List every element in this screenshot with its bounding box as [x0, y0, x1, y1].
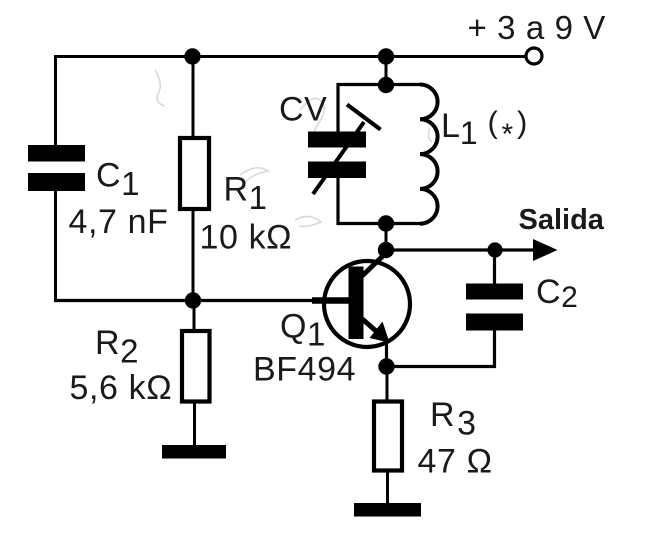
node dot base junction [185, 292, 201, 308]
CV trimmer diagonal [313, 122, 364, 194]
svg-text:CV: CV [279, 91, 327, 129]
svg-text:5,6 kΩ: 5,6 kΩ [70, 369, 173, 407]
Q1 base lead (thick) [312, 297, 350, 304]
wire: left vertical below C1 [54, 191, 57, 302]
svg-text:47 Ω: 47 Ω [418, 443, 493, 481]
wire: output line [386, 248, 536, 251]
svg-text:Salida: Salida [519, 204, 605, 236]
wire: R3 bottom lead [386, 472, 389, 504]
wire: emitter node to R3 [386, 366, 389, 400]
capacitor C2 [466, 284, 523, 331]
wire: R1 top lead [192, 56, 195, 137]
wire: tank left vertical upper (to CV top plate) [336, 83, 339, 133]
Q1 collector lead [360, 252, 387, 278]
svg-text:4,7 nF: 4,7 nF [69, 203, 169, 241]
Q1 base bar [349, 267, 364, 340]
ground (R3) [354, 503, 421, 517]
node dot tank bottom [378, 215, 394, 231]
node dot emitter [378, 358, 394, 374]
output arrowhead [533, 239, 558, 261]
ground (R2) [162, 445, 226, 459]
node dot on rail above R1 [184, 48, 200, 64]
node dot tank top [378, 77, 394, 93]
variable capacitor CV plates [308, 132, 366, 179]
battery terminal (open circle) [526, 48, 542, 64]
wire: rail to tank top [385, 56, 388, 85]
wire: emitter down to node [385, 344, 388, 367]
wire: tank left vertical lower (from CV bottom plate) [336, 177, 339, 225]
resistor R2 [182, 331, 210, 402]
Q1 emitter arrowhead [370, 322, 390, 343]
transistor Q1 body circle [324, 261, 410, 347]
CV trimmer tee bar [347, 105, 381, 130]
wire: C2 bottom lead [493, 330, 496, 368]
wire: R1 bottom lead [192, 211, 195, 301]
resistor R3 [374, 402, 402, 471]
wire: C2 to emitter horizontal [386, 365, 496, 368]
wire: bottom horizontal to base [54, 299, 350, 302]
wire: tank bottom to collector node [385, 223, 388, 251]
wire: tank bottom horizontal [337, 222, 421, 225]
wire: tank top horizontal [337, 83, 421, 86]
svg-text:+ 3 a 9 V: + 3 a 9 V [468, 9, 606, 46]
wire: R2 bottom lead [193, 403, 196, 446]
node dot collector/output [378, 242, 394, 258]
inductor L1 coil [420, 85, 438, 224]
node dot output/C2 [487, 242, 502, 257]
wire: C2 top lead [493, 250, 496, 285]
wire: left vertical drop to C1 [54, 55, 57, 146]
wire: R2 top lead [193, 300, 196, 330]
svg-text:BF494: BF494 [253, 351, 356, 389]
capacitor C1 [28, 145, 85, 191]
Q1 emitter lead [360, 317, 380, 335]
svg-text:10 kΩ: 10 kΩ [200, 219, 293, 257]
node dot rail above tank [378, 48, 394, 64]
resistor R1 [180, 138, 209, 209]
wire: top power rail [55, 55, 525, 58]
